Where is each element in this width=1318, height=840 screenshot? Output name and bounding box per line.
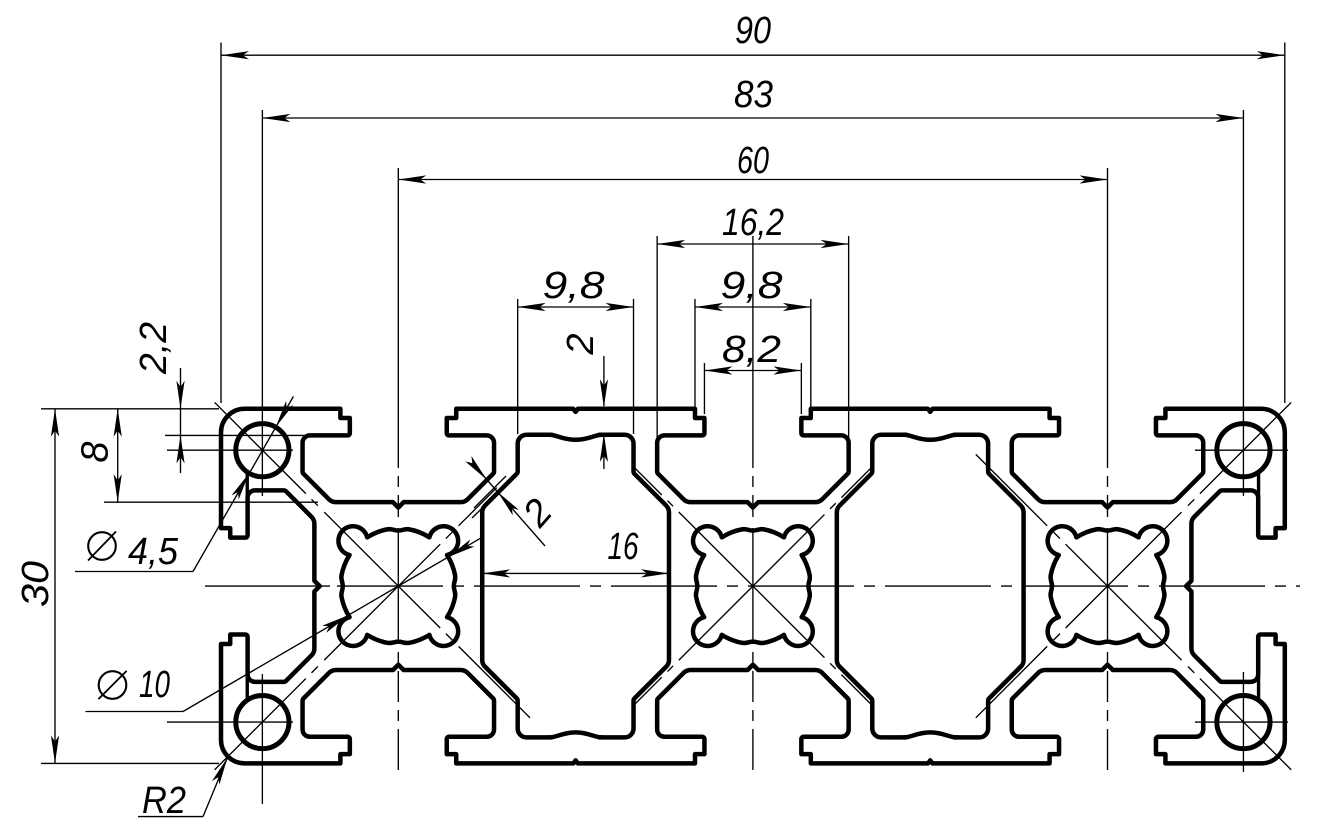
svg-text:60: 60	[737, 140, 769, 182]
dimension 16 (waist cavity)	[482, 572, 669, 574]
diagonal centerline cell1 TL-BR	[215, 402, 530, 717]
hourglass cavity at x=30 (left)	[482, 435, 669, 738]
core hole (10) clover, cell 1	[338, 526, 458, 646]
diagonal centerline cell3 BR-TL	[976, 454, 1291, 769]
svg-text:9,8: 9,8	[543, 265, 605, 307]
wavy thread line top chamber x=30	[549, 435, 602, 440]
wavy thread line bottom chamber x=60	[904, 732, 957, 737]
hourglass cavity at x=60 (right)	[837, 435, 1024, 738]
wavy thread line top chamber x=60	[904, 435, 957, 440]
bottom-left screw hole vertical centerline	[261, 674, 263, 804]
dimension 9,8 (left chamber)	[517, 299, 519, 434]
dimension 90	[220, 43, 222, 404]
boss wall stub top-left	[246, 473, 249, 496]
dimension 9,8 (slot shoulders)	[694, 299, 696, 414]
svg-text:8,2: 8,2	[722, 329, 781, 371]
screw hole (4,5) top-left	[236, 424, 289, 477]
dimension 30 (height)	[41, 408, 219, 410]
diagonal centerline cell3 TR-BL	[976, 402, 1291, 717]
boss wall stub bottom-left	[246, 676, 249, 699]
svg-text:2: 2	[560, 333, 602, 355]
dimension 2 (top wall)	[603, 356, 605, 406]
svg-text:8: 8	[75, 441, 117, 462]
vertical centerline cell x=45	[752, 236, 754, 770]
svg-text:10: 10	[139, 664, 170, 706]
label R2 with leader	[138, 816, 203, 818]
dimension 8,2	[703, 363, 705, 414]
dimension 60	[398, 179, 1107, 181]
bottom-left screw hole horizontal centerline	[167, 721, 293, 723]
wavy thread line bottom chamber x=30	[549, 732, 602, 737]
dimension 8	[104, 501, 318, 503]
svg-text:90: 90	[735, 10, 771, 52]
svg-text:R2: R2	[142, 780, 186, 822]
diagonal centerline cell2 TL-BR	[634, 467, 873, 706]
svg-text:30: 30	[15, 561, 57, 607]
horizontal main centerline	[205, 585, 1300, 587]
svg-text:4,5: 4,5	[128, 531, 179, 573]
profile outer contour with T-slots	[221, 409, 1285, 764]
screw hole (4,5) top-right	[1217, 424, 1270, 477]
diagonal centerline cell2 BL-TR	[634, 466, 873, 705]
vertical centerline cell x=15	[397, 168, 399, 770]
boss wall stub top-right	[1257, 473, 1260, 496]
vertical centerline cell x=75	[1107, 168, 1109, 770]
diagonal centerline cell1 BL-TR	[215, 488, 497, 770]
dimension 2 (diagonal rib)	[481, 473, 545, 546]
boss wall stub bottom-right	[1257, 676, 1260, 699]
screw hole (4,5) bottom-right	[1217, 695, 1270, 748]
label diameter 4,5 with leader	[75, 571, 193, 573]
svg-text:2,2: 2,2	[133, 322, 175, 375]
top-left screw hole horizontal centerline	[167, 449, 293, 451]
label diameter 10 with leader	[86, 711, 184, 713]
bottom-right screw hole horizontal centerline	[1195, 721, 1288, 723]
dimension 16,2	[656, 236, 658, 444]
core hole (10) clover, cell 2	[693, 526, 813, 646]
bottom-right screw hole vertical centerline	[1242, 672, 1244, 772]
svg-text:83: 83	[734, 74, 773, 116]
dimension 2,2	[165, 434, 306, 436]
screw hole (4,5) bottom-left	[236, 695, 289, 748]
svg-text:16,2: 16,2	[722, 202, 784, 244]
top-right screw hole horizontal centerline	[1195, 449, 1288, 451]
dimension 83	[261, 110, 263, 496]
core hole (10) clover, cell 3	[1048, 526, 1168, 646]
svg-text:9,8: 9,8	[721, 265, 783, 307]
svg-text:16: 16	[608, 526, 640, 568]
